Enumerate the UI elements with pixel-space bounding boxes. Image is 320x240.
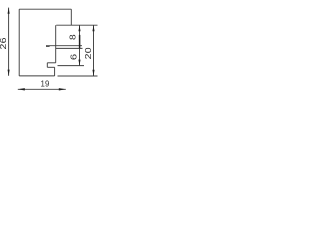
body right edge upper <box>70 9 72 25</box>
arrow pair at chain junction (8/6) <box>79 35 81 49</box>
body top edge <box>19 8 71 10</box>
svg-text:20: 20 <box>83 47 93 59</box>
arrow 26 up <box>8 8 10 14</box>
internal groove upper line <box>46 45 82 47</box>
svg-text:8: 8 <box>68 34 77 40</box>
arrow 20 down <box>92 70 94 76</box>
groove lower extension line <box>56 47 83 49</box>
step edge with extension line <box>56 24 97 26</box>
body right edge middle <box>55 25 57 63</box>
internal groove thick end <box>46 45 49 47</box>
arrow 6 down <box>78 60 80 66</box>
arrow 19 left <box>18 88 25 90</box>
notch bottom edge <box>47 66 54 68</box>
body bottom edge <box>19 75 54 77</box>
bottom extension line <box>58 75 98 77</box>
svg-text:19: 19 <box>40 80 49 89</box>
arrow 20 up <box>92 25 94 31</box>
dimension line 20 <box>93 25 95 76</box>
notch left edge <box>46 63 48 68</box>
dimension line 26 <box>8 8 10 76</box>
arrow 8 up <box>78 25 80 31</box>
body left edge <box>18 9 20 76</box>
dimension chain line 8 and 6 <box>79 25 81 65</box>
extension line mid right <box>58 65 85 67</box>
internal groove tick <box>46 45 48 47</box>
arrow 19 right <box>59 88 66 90</box>
notch top edge <box>47 62 55 64</box>
svg-text:26: 26 <box>0 37 8 49</box>
arrow 26 down <box>8 70 10 76</box>
body right edge bottom <box>54 67 56 76</box>
svg-text:6: 6 <box>70 53 79 60</box>
dimension line 19 <box>18 88 66 90</box>
